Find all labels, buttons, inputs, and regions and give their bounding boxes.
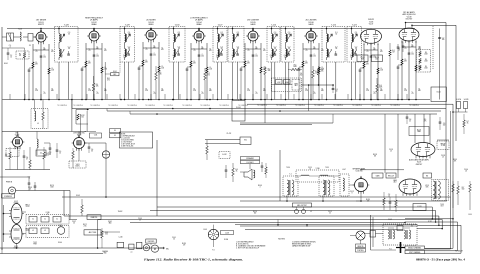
svg-text:PL-112: PL-112 xyxy=(227,133,232,135)
svg-text:T-124: T-124 xyxy=(271,25,276,27)
svg-text:68K: 68K xyxy=(209,90,212,92)
svg-text:50: 50 xyxy=(335,34,337,36)
svg-text:6. SEE TM 11-266: 6. SEE TM 11-266 xyxy=(121,145,133,147)
svg-text:K-1: K-1 xyxy=(114,130,116,132)
svg-text:20: 20 xyxy=(73,222,75,224)
svg-text:TO V-108 PIN 4: TO V-108 PIN 4 xyxy=(127,105,137,107)
svg-text:4. OSC HI SIDE: 4. OSC HI SIDE xyxy=(121,141,132,143)
svg-text:E-102: E-102 xyxy=(222,154,226,156)
svg-text:50: 50 xyxy=(128,48,130,50)
svg-text:Z-2: Z-2 xyxy=(40,153,42,155)
svg-text:12: 12 xyxy=(124,57,126,59)
svg-text:TM 666-87: TM 666-87 xyxy=(455,250,463,252)
svg-text:T-135: T-135 xyxy=(325,167,329,169)
svg-text:.01: .01 xyxy=(145,49,147,51)
svg-text:12: 12 xyxy=(284,57,286,59)
svg-text:6SN7GT: 6SN7GT xyxy=(416,164,423,166)
svg-text:T-131: T-131 xyxy=(94,135,98,137)
svg-text:Z-4: Z-4 xyxy=(411,226,413,228)
svg-text:CONTROL: CONTROL xyxy=(357,250,364,252)
svg-text:.01: .01 xyxy=(247,50,249,52)
svg-text:100K: 100K xyxy=(50,186,53,188)
svg-text:.25: .25 xyxy=(309,168,311,170)
svg-text:50: 50 xyxy=(128,34,130,36)
svg-text:TO V-108 PIN 4: TO V-108 PIN 4 xyxy=(90,105,100,107)
svg-text:470: 470 xyxy=(207,75,210,77)
svg-text:NOTE:: NOTE: xyxy=(121,133,126,135)
svg-text:TO V-108 PIN 4: TO V-108 PIN 4 xyxy=(257,105,267,107)
svg-text:47K: 47K xyxy=(161,49,164,51)
svg-text:.01: .01 xyxy=(305,50,307,52)
svg-text:NOTES: NOTES xyxy=(278,238,285,240)
svg-text:L-1: L-1 xyxy=(37,123,39,125)
svg-text:S-104: S-104 xyxy=(58,242,62,244)
svg-text:TO V-108 PIN 4: TO V-108 PIN 4 xyxy=(390,105,400,107)
svg-text:T-1: T-1 xyxy=(56,218,58,220)
svg-text:50: 50 xyxy=(288,48,290,50)
svg-text:2.2K: 2.2K xyxy=(404,90,407,92)
svg-text:OUT: OUT xyxy=(441,205,444,207)
svg-text:.05: .05 xyxy=(398,50,400,52)
svg-text:.01: .01 xyxy=(201,93,203,95)
svg-text:LS-166/U: LS-166/U xyxy=(247,162,255,164)
svg-text:T-1: T-1 xyxy=(32,218,34,220)
svg-text:600: 600 xyxy=(254,212,257,214)
svg-text:350: 350 xyxy=(105,234,108,236)
svg-text:470: 470 xyxy=(107,80,110,82)
svg-text:33: 33 xyxy=(91,151,93,153)
svg-text:2.2K: 2.2K xyxy=(145,90,148,92)
svg-text:SPEAKER AMPL: SPEAKER AMPL xyxy=(353,168,366,171)
svg-text:2.2K: 2.2K xyxy=(35,90,38,92)
svg-text:220K: 220K xyxy=(424,61,427,63)
svg-text:47K: 47K xyxy=(263,50,266,52)
svg-text:V-107: V-107 xyxy=(369,23,373,25)
svg-text:.01: .01 xyxy=(373,93,375,95)
svg-text:L-107: L-107 xyxy=(342,169,346,171)
svg-text:25: 25 xyxy=(409,121,411,123)
svg-text:T-134: T-134 xyxy=(286,167,290,169)
svg-text:47K: 47K xyxy=(454,160,457,162)
svg-text:J-109: J-109 xyxy=(203,229,207,231)
svg-text:50: 50 xyxy=(173,238,175,240)
svg-text:GND: GND xyxy=(104,252,107,254)
svg-text:12: 12 xyxy=(173,57,175,59)
svg-text:Z-1: Z-1 xyxy=(29,45,31,47)
svg-text:.05: .05 xyxy=(465,170,467,172)
svg-text:TO V-108 PIN 4: TO V-108 PIN 4 xyxy=(238,105,248,107)
svg-text:100: 100 xyxy=(313,56,316,58)
svg-text:100: 100 xyxy=(201,56,204,58)
svg-text:T-126: T-126 xyxy=(18,29,22,31)
svg-text:PWR: PWR xyxy=(33,243,36,245)
svg-text:T-123: T-123 xyxy=(352,25,357,27)
svg-text:10K: 10K xyxy=(96,86,99,88)
svg-text:V-111 6V6: V-111 6V6 xyxy=(356,171,363,173)
svg-text:47K: 47K xyxy=(209,50,212,52)
svg-text:2.2K: 2.2K xyxy=(193,90,196,92)
svg-text:TO V-108 PIN 4: TO V-108 PIN 4 xyxy=(108,105,118,107)
svg-text:6SL7GT: 6SL7GT xyxy=(406,19,414,21)
svg-text:L-2: L-2 xyxy=(44,230,46,232)
svg-text:P-111: P-111 xyxy=(428,221,432,223)
svg-text:.01: .01 xyxy=(43,93,45,95)
svg-text:J-108: J-108 xyxy=(225,233,229,235)
svg-text:10: 10 xyxy=(388,195,390,197)
svg-text:MED OUTPUT: MED OUTPUT xyxy=(297,205,307,207)
svg-text:100: 100 xyxy=(43,57,46,59)
svg-text:S-107B: S-107B xyxy=(464,99,469,101)
svg-text:TO V-108 PIN 4: TO V-108 PIN 4 xyxy=(409,105,419,107)
svg-text:V-112: V-112 xyxy=(26,206,30,208)
svg-text:TO V-108 PIN 4: TO V-108 PIN 4 xyxy=(57,105,67,107)
svg-text:68K: 68K xyxy=(321,90,324,92)
svg-text:M: M xyxy=(154,248,156,251)
svg-text:.05: .05 xyxy=(29,188,31,190)
svg-text:TO V-108 PIN 4: TO V-108 PIN 4 xyxy=(352,105,362,107)
svg-text:1K: 1K xyxy=(467,123,469,125)
svg-text:50: 50 xyxy=(178,48,180,50)
svg-text:S-103: S-103 xyxy=(76,195,80,197)
svg-text:2. UNLESS OTHERWISE SHOWN,: 2. UNLESS OTHERWISE SHOWN, xyxy=(292,241,316,243)
svg-text:68K: 68K xyxy=(418,90,421,92)
svg-text:REC: REC xyxy=(113,74,116,76)
svg-text:68K: 68K xyxy=(380,90,383,92)
svg-text:HIGH: HIGH xyxy=(285,82,288,84)
svg-text:12: 12 xyxy=(61,57,63,59)
svg-text:REMOTE: REMOTE xyxy=(91,217,97,219)
svg-text:220K: 220K xyxy=(424,68,427,70)
svg-text:.01: .01 xyxy=(366,51,368,53)
svg-text:100: 100 xyxy=(96,56,99,58)
svg-text:2.2K: 2.2K xyxy=(158,74,161,76)
svg-text:.01: .01 xyxy=(96,93,98,95)
svg-text:2.2K: 2.2K xyxy=(305,90,308,92)
svg-text:T-1: T-1 xyxy=(44,218,46,220)
svg-text:50: 50 xyxy=(237,48,239,50)
svg-text:12: 12 xyxy=(351,57,353,59)
svg-text:1. IN TONE FREQUENCY:: 1. IN TONE FREQUENCY: xyxy=(236,241,254,243)
svg-text:2.2K: 2.2K xyxy=(247,90,250,92)
svg-text:2.2K: 2.2K xyxy=(88,90,91,92)
svg-text:68K: 68K xyxy=(51,90,54,92)
svg-text:T-128: T-128 xyxy=(64,25,69,27)
svg-text:12: 12 xyxy=(232,57,234,59)
svg-text:.05: .05 xyxy=(28,178,30,180)
svg-text:J-1: J-1 xyxy=(130,252,132,254)
svg-text:.01: .01 xyxy=(35,51,37,53)
svg-text:.01: .01 xyxy=(88,50,90,52)
svg-text:47: 47 xyxy=(26,159,28,161)
svg-text:T-1: T-1 xyxy=(289,174,291,176)
svg-text:K-101: K-101 xyxy=(417,206,421,208)
svg-text:12: 12 xyxy=(216,57,218,59)
svg-text:5Y3GT: 5Y3GT xyxy=(14,203,19,205)
svg-text:Figure 112. Radio Receiver R-: Figure 112. Radio Receiver R-108/TRC-1, … xyxy=(144,257,243,261)
svg-text:TO V-108 PIN 4: TO V-108 PIN 4 xyxy=(145,105,155,107)
svg-text:100K: 100K xyxy=(293,66,297,68)
svg-text:6AU6: 6AU6 xyxy=(250,23,256,26)
svg-text:12: 12 xyxy=(270,57,272,59)
svg-text:E-121: E-121 xyxy=(437,92,441,94)
svg-text:O-103: O-103 xyxy=(441,145,445,147)
svg-text:68: 68 xyxy=(19,55,21,57)
svg-text:47K: 47K xyxy=(104,50,107,52)
svg-text:100: 100 xyxy=(442,39,445,41)
svg-text:TO V-108 PIN 4: TO V-108 PIN 4 xyxy=(371,105,381,107)
svg-text:12: 12 xyxy=(328,57,330,59)
svg-text:1K: 1K xyxy=(236,170,238,172)
svg-text:PWR IN: PWR IN xyxy=(6,182,13,184)
svg-text:REMOTE: REMOTE xyxy=(358,246,364,248)
svg-text:TO V-108 PIN 4: TO V-108 PIN 4 xyxy=(333,105,343,107)
svg-text:25: 25 xyxy=(329,212,331,214)
svg-text:T-136: T-136 xyxy=(315,168,319,170)
svg-text:50: 50 xyxy=(178,34,180,36)
svg-text:270: 270 xyxy=(367,200,370,202)
svg-text:J-110: J-110 xyxy=(468,214,472,216)
svg-text:100: 100 xyxy=(81,116,84,118)
svg-text:250: 250 xyxy=(300,75,303,77)
svg-text:5Y3GT: 5Y3GT xyxy=(14,248,19,250)
svg-text:50: 50 xyxy=(336,91,338,93)
svg-text:888878 O - 51 (Face page 289): 888878 O - 51 (Face page 289) No. 4 xyxy=(416,258,466,261)
svg-text:100K: 100K xyxy=(375,58,378,60)
svg-text:L-2: L-2 xyxy=(32,230,34,232)
svg-text:6SB7Y: 6SB7Y xyxy=(38,24,45,26)
svg-text:T-130: T-130 xyxy=(175,25,180,27)
svg-text:50: 50 xyxy=(288,34,290,36)
svg-text:100: 100 xyxy=(443,125,446,127)
svg-text:270: 270 xyxy=(183,244,186,246)
svg-text:T-127: T-127 xyxy=(218,25,223,27)
svg-text:600: 600 xyxy=(462,189,465,191)
svg-text:C-140: C-140 xyxy=(119,237,123,239)
svg-text:TO V-108 PIN 4: TO V-108 PIN 4 xyxy=(163,105,173,107)
svg-text:.01: .01 xyxy=(411,93,413,95)
svg-text:20: 20 xyxy=(47,213,49,215)
svg-text:T-129: T-129 xyxy=(125,25,130,27)
svg-text:68K: 68K xyxy=(161,90,164,92)
svg-text:.01: .01 xyxy=(153,93,155,95)
svg-text:6AU6: 6AU6 xyxy=(308,23,314,26)
svg-text:TO V-108 PIN 4: TO V-108 PIN 4 xyxy=(219,105,229,107)
svg-text:100: 100 xyxy=(153,55,156,57)
svg-text:TO V-108 PIN 4: TO V-108 PIN 4 xyxy=(73,105,83,107)
svg-text:K-2: K-2 xyxy=(114,135,116,137)
svg-text:REC-CW: REC-CW xyxy=(388,176,394,178)
svg-text:68K: 68K xyxy=(104,90,107,92)
svg-text:TO V-108 PIN 4: TO V-108 PIN 4 xyxy=(295,105,305,107)
svg-text:.01: .01 xyxy=(313,93,315,95)
svg-text:TB-102: TB-102 xyxy=(118,211,123,213)
svg-text:VOL: VOL xyxy=(244,140,247,142)
svg-text:.01: .01 xyxy=(255,93,257,95)
svg-text:L-108: L-108 xyxy=(58,225,62,227)
svg-text:.01: .01 xyxy=(193,50,195,52)
svg-text:P-1: P-1 xyxy=(212,250,214,252)
svg-text:50: 50 xyxy=(237,34,239,36)
svg-text:10: 10 xyxy=(59,153,61,155)
svg-text:TO V-108 PIN 4: TO V-108 PIN 4 xyxy=(200,105,210,107)
svg-text:39K: 39K xyxy=(268,70,271,72)
svg-text:J-2: J-2 xyxy=(310,211,312,213)
svg-text:68K: 68K xyxy=(263,90,266,92)
svg-text:TO V-108 PIN 4: TO V-108 PIN 4 xyxy=(276,105,286,107)
svg-text:15K: 15K xyxy=(321,71,324,73)
svg-text:TO V-108 PIN 4: TO V-108 PIN 4 xyxy=(182,105,192,107)
svg-text:RECORD: RECORD xyxy=(148,241,155,243)
svg-text:47K: 47K xyxy=(321,50,324,52)
svg-text:50: 50 xyxy=(335,48,337,50)
svg-text:50: 50 xyxy=(355,34,357,36)
svg-text:1. IN FREQ SELECT: 1. IN FREQ SELECT xyxy=(121,135,135,137)
svg-text:2.5K: 2.5K xyxy=(84,225,87,227)
svg-text:S-101: S-101 xyxy=(113,71,117,73)
svg-text:T-125: T-125 xyxy=(331,25,336,27)
svg-text:FL-101: FL-101 xyxy=(236,107,241,109)
svg-text:50: 50 xyxy=(68,48,70,50)
svg-text:2.2K: 2.2K xyxy=(366,90,369,92)
svg-text:Z-103: Z-103 xyxy=(388,219,392,221)
svg-text:.01: .01 xyxy=(139,219,141,221)
svg-text:POWER IN: POWER IN xyxy=(4,196,12,198)
svg-text:50: 50 xyxy=(355,48,357,50)
svg-text:50: 50 xyxy=(274,34,276,36)
svg-text:100: 100 xyxy=(255,56,258,58)
svg-text:W-106: W-106 xyxy=(224,239,228,241)
svg-text:50: 50 xyxy=(274,48,276,50)
svg-text:220K: 220K xyxy=(424,54,427,56)
svg-text:TO V-108 PIN 4: TO V-108 PIN 4 xyxy=(314,105,324,107)
svg-text:50: 50 xyxy=(221,34,223,36)
svg-text:47K: 47K xyxy=(380,51,383,53)
svg-text:2. C-140 200: 2. C-140 200 xyxy=(121,137,130,139)
svg-text:50: 50 xyxy=(68,34,70,36)
svg-text:100K: 100K xyxy=(379,87,383,89)
svg-text:50: 50 xyxy=(221,48,223,50)
svg-text:.01: .01 xyxy=(442,156,444,158)
svg-text:.01: .01 xyxy=(404,48,406,50)
svg-text:.01: .01 xyxy=(390,150,392,152)
svg-text:100: 100 xyxy=(411,54,414,56)
svg-text:E-101: E-101 xyxy=(4,63,8,65)
svg-text:10: 10 xyxy=(10,56,12,58)
svg-text:6V6: 6V6 xyxy=(426,186,429,188)
svg-text:47K: 47K xyxy=(51,51,54,53)
svg-text:3. R-162 IN OHMS: 3. R-162 IN OHMS xyxy=(121,139,134,141)
svg-text:47K: 47K xyxy=(424,121,427,123)
